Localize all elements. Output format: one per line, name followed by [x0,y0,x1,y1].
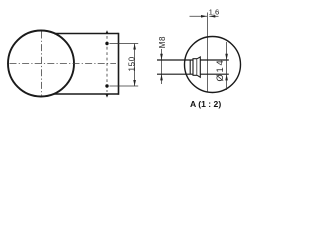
main view: ball circle [8,31,74,97]
shaft bottom line [157,73,193,75]
witness line upper for dim 150 [110,43,139,45]
collar flare [197,57,200,77]
dim line 1.6 right part with arrow [209,15,218,17]
detail: dim 1.6 extension line [206,13,208,93]
shaft top line [157,59,193,61]
node dot lower [105,84,108,87]
wire: horizontal centerline of main view [10,63,117,65]
dim line 1.6 left part with arrow [190,15,208,17]
ball hole chord bottom [200,73,229,75]
svg-text:150: 150 [128,56,137,71]
node dot upper [105,42,108,45]
wire: vertical dashed axis at x=107 [106,36,108,92]
cylinder right end edge [118,33,120,95]
wire: vertical centerline of main view [41,32,43,97]
cylinder bottom edge [54,93,119,95]
dim line dia14 vertical [226,42,228,90]
dim line M8 vertical [161,49,163,84]
detail ball outline [185,37,241,93]
arrow up at top of axis [105,30,108,34]
thread end face [189,60,191,74]
svg-text:A (1 : 2): A (1 : 2) [190,99,221,109]
arrow down at bottom of axis [105,94,108,98]
svg-text:Ø14: Ø14 [215,59,225,82]
collar rectangle [193,59,197,76]
ball hole chord top [200,59,229,61]
svg-text:M8: M8 [158,36,167,48]
cylinder top edge [54,33,119,35]
witness line lower for dim 150 [110,85,139,87]
dimension line 150 [134,44,136,87]
svg-text:1.6: 1.6 [209,8,220,17]
